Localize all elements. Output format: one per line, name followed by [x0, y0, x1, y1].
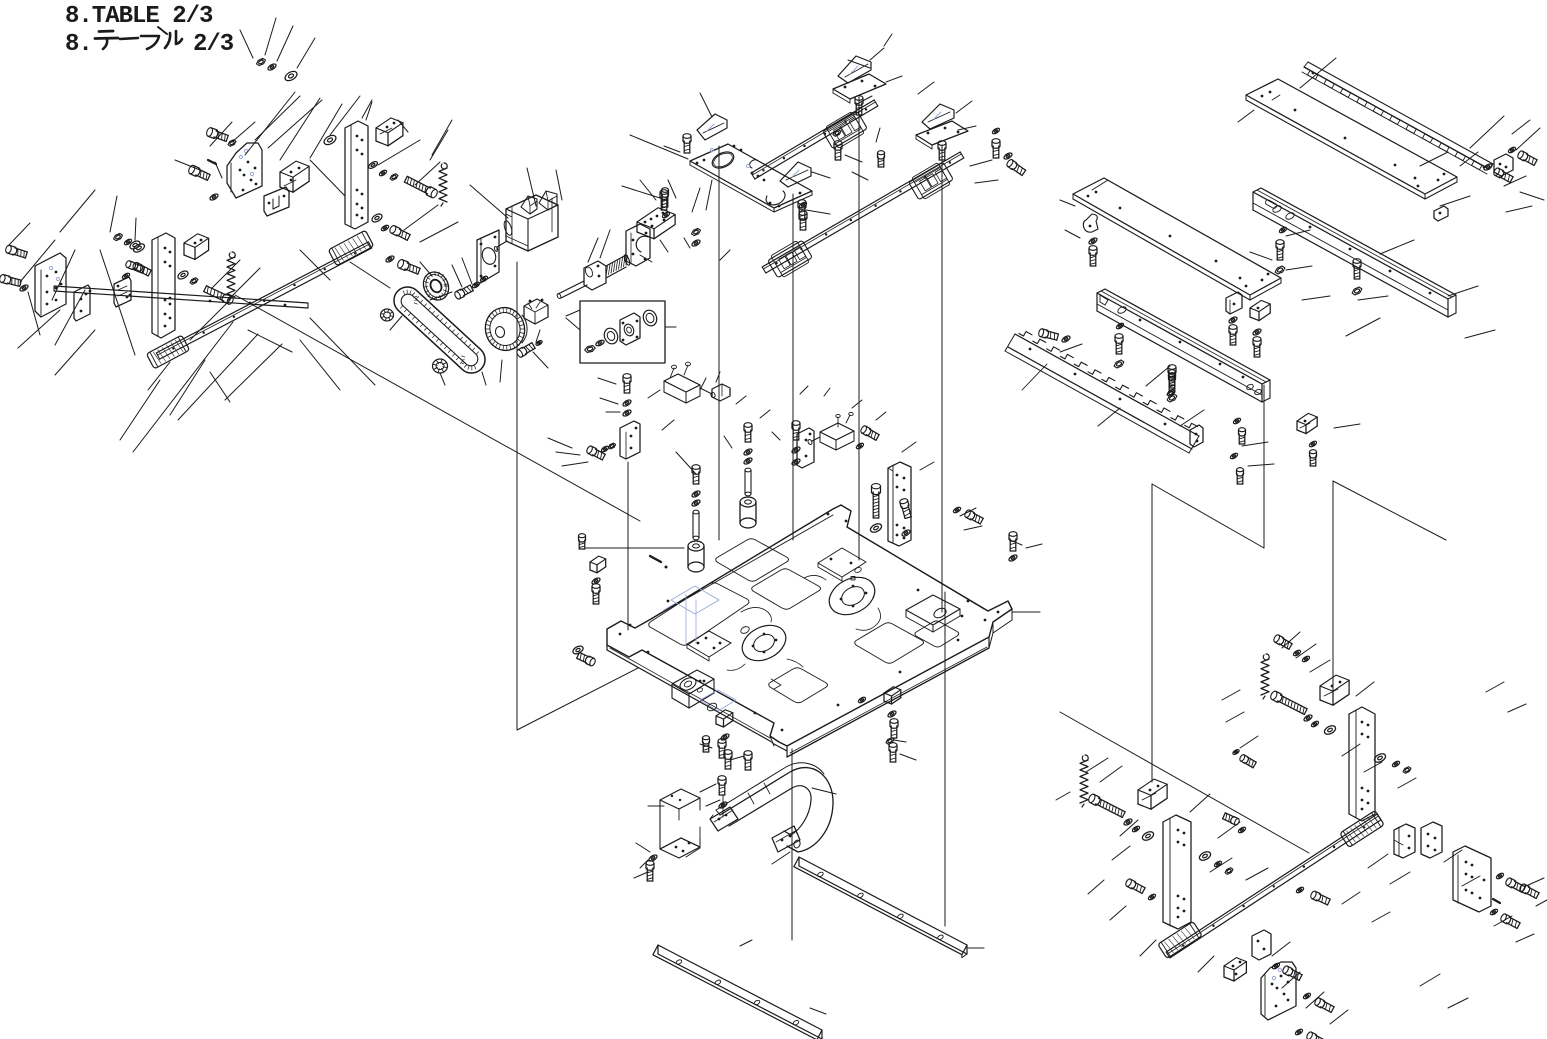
connector line (left assembly to table)	[235, 295, 640, 521]
flat washer	[1141, 830, 1155, 842]
socket head screw	[1125, 878, 1146, 894]
socket head screw	[1505, 877, 1526, 893]
socket head screw	[1282, 965, 1303, 981]
washer	[379, 169, 388, 177]
washer	[1373, 752, 1387, 764]
small block under plate 2	[884, 687, 901, 704]
long flat panel (upper right)	[1246, 79, 1457, 199]
hex nut	[257, 58, 266, 65]
slotted plate	[114, 277, 131, 307]
socket head screw	[1306, 1031, 1327, 1039]
socket head screw	[1169, 370, 1176, 385]
left assembly leader lines	[8, 96, 458, 402]
u-bracket	[280, 161, 309, 192]
tall post plate (left)	[1163, 815, 1191, 929]
pocket C (center)	[752, 569, 821, 610]
table bore (large)	[823, 570, 881, 622]
socket head screw	[396, 259, 420, 276]
angle bracket (spring left)	[1138, 779, 1167, 809]
hex nut	[228, 140, 236, 147]
linear guide rail (lower)	[762, 152, 964, 273]
socket head screw	[1237, 468, 1244, 484]
leader (top-right)	[1460, 128, 1544, 200]
angle clip	[1226, 292, 1242, 314]
angle bracket (spring right)	[1320, 675, 1349, 705]
leader lines (top-center)	[622, 34, 1022, 545]
washer	[1003, 152, 1013, 161]
channel rail (upper)	[1253, 188, 1456, 317]
idler nut	[433, 359, 448, 373]
table base plate	[607, 505, 1012, 757]
left slide rail	[156, 242, 371, 359]
side plate (far right)	[1453, 846, 1491, 912]
socket head screw	[798, 200, 806, 219]
box bracket	[184, 234, 209, 260]
socket head screw	[1314, 997, 1335, 1013]
raised pad (top, with holes)	[818, 548, 866, 581]
pocket E (right)	[855, 623, 924, 664]
socket head screw	[662, 188, 669, 207]
socket head screw	[878, 151, 885, 167]
screw stack (standoff 2)	[743, 423, 753, 466]
connector line (motor to table, vertical)	[517, 262, 638, 730]
bracket plate	[74, 285, 90, 321]
hex nut	[114, 233, 123, 240]
washer	[1311, 720, 1320, 728]
clip block	[1250, 300, 1270, 320]
washer	[124, 238, 133, 246]
table bore (small)	[736, 618, 792, 667]
washer	[858, 696, 867, 704]
washer	[1116, 322, 1125, 330]
flat washer	[869, 522, 883, 534]
washer	[1272, 962, 1281, 970]
rail carriage block	[907, 160, 954, 202]
washer	[381, 224, 390, 232]
actuator cylinder	[807, 412, 854, 450]
hex nut	[1403, 767, 1411, 774]
washer+screw (left of rack)	[1038, 328, 1071, 343]
washer	[1088, 237, 1098, 246]
washer	[887, 710, 897, 719]
tall mount plate (left)	[152, 233, 175, 338]
mid plate (right)	[1421, 822, 1442, 858]
servo motor	[503, 195, 558, 251]
title line 1: 8.TABLE 2/3	[65, 3, 213, 30]
small bracket (lower)	[1224, 958, 1246, 981]
toothed clamp strip (upper)	[1302, 62, 1493, 174]
channel rail (lower)	[1097, 289, 1270, 402]
wedge mount plate 3	[916, 121, 968, 149]
screw+washer+washer (above spring)	[1273, 634, 1311, 663]
socket head screw	[703, 736, 710, 752]
screw stack (standoff 1)	[691, 465, 701, 508]
leader lines (right)	[1060, 58, 1532, 466]
connector line (wedge2 to table)	[858, 97, 860, 560]
socket head screw	[718, 739, 726, 758]
detail: washer	[595, 339, 605, 347]
spacer tube	[745, 468, 751, 496]
socket head screw	[890, 719, 898, 738]
connector line (screw to table)	[792, 194, 794, 540]
washer	[1228, 316, 1238, 325]
washer	[267, 63, 277, 72]
socket head screw	[1089, 246, 1097, 266]
socket head screw	[206, 127, 229, 143]
nut (belt left)	[381, 309, 394, 321]
socket head screw	[1115, 334, 1123, 354]
connector line (channel to bottom-right, Z)	[1152, 385, 1264, 782]
socket head screw (top-right 2)	[1517, 150, 1538, 166]
screw+washer+nut	[586, 443, 616, 461]
detail: bearing 2	[641, 308, 659, 328]
screw stack	[622, 374, 632, 418]
washer	[1295, 1028, 1304, 1036]
washer	[662, 211, 671, 219]
angle bracket (actuator)	[797, 428, 814, 468]
socket head screw	[683, 134, 691, 153]
clip bracket (right of channel)	[1297, 413, 1317, 433]
socket head screw	[724, 750, 732, 769]
hex nut	[886, 738, 894, 745]
rail cylinder block (lower)	[146, 335, 189, 369]
cable carrier chain	[716, 763, 833, 852]
gearbox boss (left)	[672, 670, 714, 708]
clamp wedge 2	[838, 56, 871, 83]
large timing pulley	[481, 304, 528, 354]
screw+washer (actuator)	[856, 425, 880, 450]
timing belt	[394, 287, 485, 373]
gusset plate (bottom)	[1261, 962, 1296, 1020]
pocket F (right small)	[915, 621, 959, 647]
hex nut	[190, 278, 198, 285]
flat washer+screw (left)	[572, 645, 597, 667]
boss pad (right, with bore)	[906, 595, 960, 632]
standoff cylinder	[688, 541, 704, 572]
washer+screw pair	[953, 506, 984, 525]
title line 2: 8.(katakana te-buru) 2/3	[65, 27, 234, 58]
tension spring	[439, 163, 447, 206]
terminal box 1	[521, 196, 537, 214]
angle bracket (top)	[376, 118, 403, 146]
small block under plate	[716, 710, 733, 727]
hex nut	[1114, 360, 1124, 368]
leader fan (below left rail)	[18, 310, 375, 452]
screw stack (right)	[1008, 532, 1018, 563]
connector line (table to bottom bar 2)	[944, 592, 946, 926]
tall mount plate (right)	[345, 121, 368, 229]
flat washer	[371, 212, 384, 223]
tension spring	[1261, 654, 1269, 699]
connector line (wedge3 to table)	[941, 145, 943, 612]
connector line (bracket to table)	[627, 462, 629, 630]
screw stack (mid)	[899, 498, 912, 537]
tension spring	[1080, 755, 1088, 807]
screw stack (center)	[791, 421, 801, 467]
socket head screw	[389, 225, 411, 241]
rack tooth strip	[1005, 332, 1199, 454]
detail leader	[665, 326, 676, 328]
washer	[480, 275, 489, 283]
clamp wedge 1	[697, 114, 727, 140]
washer	[209, 193, 219, 202]
socket head screw	[1006, 159, 1026, 177]
corner gusset plate	[227, 143, 262, 198]
spacer tube	[693, 510, 699, 540]
socket head screw	[1168, 365, 1176, 392]
washer	[1303, 992, 1312, 1000]
washer	[1132, 825, 1141, 833]
washer	[1303, 714, 1313, 723]
socket head screw	[5, 245, 28, 259]
socket head screw	[1500, 913, 1521, 929]
leader lines (bottom right)	[1056, 632, 1547, 1024]
socket head screw	[938, 141, 946, 160]
detail: bearing	[602, 326, 620, 346]
tall post plate (right)	[1349, 707, 1375, 821]
socket head screw	[1310, 450, 1317, 466]
hex nut	[1167, 394, 1177, 402]
socket head screw	[1519, 883, 1540, 899]
socket head screw	[132, 261, 151, 276]
ball screw with flange nut	[556, 254, 630, 299]
washer	[992, 127, 1001, 135]
leader lines (motor area)	[390, 168, 730, 385]
hook bracket	[1083, 214, 1098, 232]
leader (washer cluster)	[240, 18, 315, 68]
rail cylinder block (right)	[1340, 810, 1384, 847]
spacer block with holes	[637, 208, 675, 239]
socket head screw	[834, 141, 842, 160]
washer	[1214, 860, 1223, 868]
end plate (rack)	[1190, 425, 1203, 447]
step connector line	[686, 795, 723, 857]
socket head screw	[1253, 337, 1261, 357]
rail carriage block	[766, 238, 813, 280]
detail: flange housing	[620, 313, 640, 345]
c-bracket (right)	[1394, 824, 1415, 858]
clamp wedge 3	[922, 104, 954, 129]
dowel pin	[208, 160, 216, 164]
sensor mount assembly	[664, 362, 730, 403]
long flat panel (left)	[1073, 178, 1281, 300]
raised pad (left, with holes)	[687, 631, 731, 661]
washer	[1230, 452, 1239, 460]
connector line (right V)	[1333, 481, 1446, 694]
shaft coupling	[524, 299, 548, 324]
socket head screw (long)	[1269, 690, 1307, 715]
hidden outline (blue)	[664, 586, 736, 712]
rail cylinder block (upper)	[328, 230, 374, 266]
detail callout box	[566, 301, 665, 363]
washer	[1252, 328, 1262, 337]
pocket A (left)	[649, 583, 749, 646]
horizontal strip bar	[54, 286, 308, 308]
frame slide rail	[1166, 814, 1381, 958]
socket head screw (long)	[1087, 793, 1125, 818]
connector line (panel to frame)	[1060, 712, 1309, 853]
washer	[718, 801, 728, 810]
hex nut	[692, 228, 701, 235]
socket head screw	[454, 284, 474, 300]
connector line (table to bottom bar 1)	[791, 749, 793, 940]
support bracket (right)	[888, 462, 911, 546]
clip bracket (panel end)	[1494, 154, 1513, 176]
socket head screw	[0, 274, 22, 287]
svg-text:8.: 8.	[65, 31, 92, 58]
washer+screw (mid2)	[1222, 813, 1246, 834]
hex nut	[1167, 390, 1175, 397]
svg-text:2/3: 2/3	[193, 31, 234, 58]
mount bar (lower)	[653, 945, 822, 1039]
socket head screw	[1229, 325, 1237, 345]
detail: hex nut	[585, 346, 596, 353]
terminal box 2	[539, 191, 557, 210]
rail carriage block	[821, 109, 868, 151]
dowel pin	[650, 556, 668, 569]
washer	[1279, 226, 1288, 234]
washer+screw (mid)	[1296, 886, 1331, 906]
washer	[385, 255, 395, 264]
leader fan (upper-left)	[210, 92, 448, 280]
flat washer	[132, 242, 146, 254]
small plate	[1252, 930, 1271, 960]
socket head screw	[1353, 259, 1361, 279]
tension spring	[227, 252, 235, 301]
socket head screw (top-right)	[1493, 167, 1514, 183]
washer	[1148, 893, 1157, 901]
mount bar (upper)	[794, 857, 967, 958]
plate with holes (left end)	[35, 253, 66, 317]
bearing (small pulley)	[419, 268, 454, 305]
flat washer	[283, 69, 298, 82]
leader lines (above table)	[548, 372, 1042, 612]
angle bracket (sensor)	[620, 421, 640, 459]
flat washer	[1323, 724, 1337, 736]
socket head screw	[646, 861, 654, 881]
socket head screw	[516, 342, 536, 358]
socket head screw (long)	[404, 175, 439, 199]
flat washer	[129, 239, 142, 250]
socket head screw	[889, 743, 897, 762]
hex nut	[1275, 266, 1285, 274]
washer	[691, 239, 701, 248]
standoff cylinder	[740, 497, 756, 528]
socket head screw	[125, 260, 145, 273]
washer	[472, 281, 481, 289]
socket head screw	[718, 776, 726, 795]
screw+washer (lower mid)	[1232, 749, 1256, 768]
hex nut	[1352, 287, 1362, 295]
clamp wedge 4	[780, 162, 811, 187]
washer	[367, 160, 378, 170]
socket head screw	[799, 211, 807, 230]
socket head screw	[1276, 240, 1284, 260]
socket head screw	[660, 190, 668, 210]
socket head screw	[187, 164, 210, 181]
slotted bracket	[264, 187, 289, 216]
washer	[1309, 440, 1318, 448]
hex nut	[833, 130, 841, 137]
motor mount plate	[477, 230, 499, 285]
flat washer	[1198, 850, 1212, 862]
hex nut	[390, 174, 398, 181]
screw+block+washer (left edge)	[579, 534, 606, 604]
wedge mount plate 2	[833, 74, 886, 103]
washer	[799, 201, 808, 209]
contour around bores	[727, 575, 881, 670]
hex nut	[1225, 868, 1233, 875]
socket head screw	[744, 751, 752, 770]
pocket D (bottom-center)	[769, 668, 828, 703]
washer	[1123, 818, 1133, 827]
socket head screw	[1239, 428, 1246, 444]
bearing bracket	[626, 224, 650, 266]
svg-text:8.TABLE 2/3: 8.TABLE 2/3	[65, 3, 213, 30]
flat washer	[177, 269, 190, 280]
washer	[1496, 872, 1505, 880]
socket head screw	[992, 139, 1000, 158]
washer	[1490, 908, 1499, 916]
washer	[1392, 760, 1401, 768]
washer	[122, 272, 131, 280]
washer	[648, 854, 658, 863]
socket head screw (long)	[203, 285, 234, 305]
hex nut	[1167, 390, 1175, 397]
socket head screw	[855, 96, 863, 115]
carrier end link (lower)	[772, 826, 801, 852]
washer	[1233, 417, 1242, 425]
motor shaft	[494, 241, 507, 252]
washer	[535, 340, 543, 347]
rail cylinder block (left)	[1158, 921, 1202, 958]
end cap clip	[1434, 206, 1448, 221]
pocket B (upper-left)	[716, 539, 789, 582]
flat washer	[322, 133, 337, 146]
washer (top-right 2)	[1508, 146, 1517, 154]
socket head screw (long)	[872, 484, 881, 518]
mount base plate with bores	[690, 144, 812, 212]
c-channel bracket	[660, 789, 700, 858]
leader lines (bottom center)	[634, 740, 984, 1014]
carrier end link (upper)	[710, 807, 738, 831]
linear guide rail (upper)	[751, 100, 878, 179]
socket head screw	[1169, 373, 1176, 388]
washer (top-right)	[1483, 163, 1493, 172]
dowel pin	[1493, 899, 1500, 903]
washer	[19, 284, 29, 293]
connector line (wedge plate to table)	[718, 146, 720, 540]
washer	[720, 733, 730, 742]
